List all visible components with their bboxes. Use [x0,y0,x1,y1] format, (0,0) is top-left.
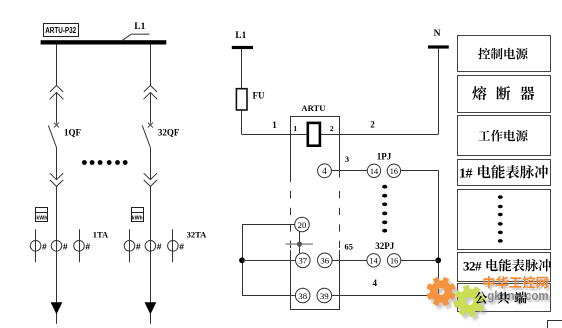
svg-text:FU: FU [253,91,265,101]
svg-text:65: 65 [344,241,353,251]
svg-text:L1: L1 [235,31,246,41]
svg-text:#: # [179,241,184,251]
svg-text:N: N [434,29,441,39]
svg-text:20: 20 [298,220,307,230]
svg-text:#: # [63,241,68,251]
svg-text:#: # [157,241,162,251]
svg-text:ARTU: ARTU [301,103,325,113]
svg-text:2: 2 [370,119,375,129]
svg-text:32#: 32# [463,258,482,273]
svg-text:#: # [85,241,90,251]
svg-text:16: 16 [390,256,398,265]
svg-text:3: 3 [345,154,349,164]
svg-text:L1: L1 [134,22,145,32]
svg-text:14: 14 [370,256,378,265]
svg-text:1#: 1# [459,166,473,181]
svg-text:4: 4 [322,166,327,176]
svg-text:#: # [136,241,141,251]
svg-text:32QF: 32QF [158,127,180,137]
svg-text:32TA: 32TA [187,230,208,240]
svg-text:39: 39 [320,291,329,301]
svg-text:#: # [42,241,47,251]
svg-text:1: 1 [272,120,277,130]
svg-text:2: 2 [330,124,334,133]
svg-text:38: 38 [298,291,307,301]
svg-text:14: 14 [370,167,378,176]
svg-text:kWh: kWh [36,216,47,222]
svg-text:kWh: kWh [132,216,143,222]
svg-text:1PJ: 1PJ [377,152,392,162]
svg-text:37: 37 [298,256,307,266]
svg-text:36: 36 [320,256,329,266]
svg-text:ARTU-P32: ARTU-P32 [45,26,77,35]
svg-text:16: 16 [390,167,398,176]
svg-text:gkong.com: gkong.com [487,288,549,303]
svg-text:32PJ: 32PJ [375,241,394,251]
svg-text:1: 1 [293,124,297,133]
svg-text:1QF: 1QF [64,127,82,137]
svg-text:4: 4 [373,278,378,288]
svg-text:1TA: 1TA [93,230,109,240]
